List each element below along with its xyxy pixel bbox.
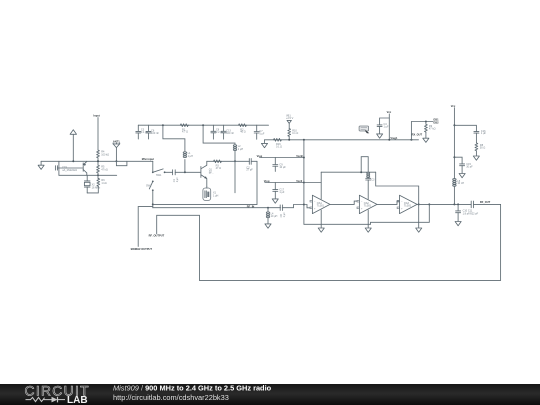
svg-text:SW2: SW2: [146, 184, 152, 187]
wire: [184, 160, 186, 173]
node 900MHZ OUTPUT: [131, 207, 153, 252]
node Vcc flag: [387, 110, 398, 141]
wire: [234, 151, 236, 162]
svg-text:10 µF: 10 µF: [279, 166, 286, 169]
capacitor C17: [272, 183, 285, 204]
svg-text:1 µF: 1 µF: [279, 191, 285, 194]
wire: [41, 160, 87, 162]
antenna ANT1: [113, 139, 120, 162]
resistor R1: [180, 124, 189, 134]
svg-text:900MHZ OUTPUT: 900MHZ OUTPUT: [131, 247, 153, 251]
svg-text:VccB: VccB: [296, 154, 303, 158]
svg-text:uA_2N2222A: uA_2N2222A: [62, 169, 77, 172]
crystal X2: [84, 175, 101, 193]
capacitor C6: [146, 125, 159, 139]
inductor L1: [183, 152, 193, 158]
svg-text:Mist909 / 900 MHz to 2.4 GHz t: Mist909 / 900 MHz to 2.4 GHz to 2.5 GHz …: [113, 384, 272, 393]
wire feedback upper: [304, 172, 376, 182]
wire: [152, 190, 154, 207]
svg-text:Vcc: Vcc: [451, 104, 456, 108]
svg-text:TL081: TL081: [317, 205, 325, 208]
wire: [87, 160, 153, 162]
wire collector: [207, 160, 257, 162]
svg-text:4.7 Ω: 4.7 Ω: [182, 131, 188, 134]
inductor L4: [265, 207, 278, 229]
capacitor C4: [377, 118, 390, 138]
ground: [38, 161, 44, 169]
svg-text:27 pF: 27 pF: [246, 169, 253, 172]
svg-text:1 µH: 1 µH: [188, 155, 194, 158]
wire OA1 out: [330, 201, 357, 204]
wire RF out: [417, 203, 501, 205]
svg-text:http://circuitlab.com/cdshvar2: http://circuitlab.com/cdshvar22bk33: [113, 393, 229, 402]
resistor R16: [274, 138, 283, 148]
svg-text:1 µH: 1 µH: [213, 194, 219, 197]
switch SW2: [146, 181, 154, 192]
logo zigzag diode: [26, 397, 66, 403]
wire: [58, 161, 60, 175]
power V1: [70, 130, 76, 163]
wire: [97, 118, 99, 150]
wire: [152, 161, 154, 171]
svg-text:100 nF: 100 nF: [226, 132, 234, 135]
capacitor C8: [211, 125, 224, 139]
svg-text:47 kΩ: 47 kΩ: [101, 169, 108, 172]
inductor L3 loop: [360, 157, 370, 178]
svg-text:Vreg1: Vreg1: [390, 136, 398, 140]
svg-text:1 µF: 1 µF: [384, 126, 390, 129]
capacitor C14: [280, 205, 286, 217]
crystal X1: [203, 187, 219, 201]
capacitor C3: [366, 177, 375, 199]
capacitor C16: [453, 124, 486, 143]
transistor Q1: [201, 161, 214, 186]
svg-text:10 µH: 10 µH: [271, 215, 278, 218]
node RX_OUT: [410, 117, 439, 140]
wire jog: [116, 161, 127, 165]
svg-text:Input: Input: [93, 114, 99, 118]
resistor R10: [288, 129, 299, 137]
ground: [416, 222, 422, 232]
capacitor C19: [55, 166, 82, 170]
capacitor C7: [254, 125, 265, 139]
op-amp OA3: [397, 195, 417, 213]
resistor R6: [97, 178, 107, 186]
resistor R8: [473, 143, 485, 160]
resistor R2: [239, 124, 247, 134]
resistor R4: [97, 150, 110, 158]
svg-text:RX_OUT: RX_OUT: [412, 132, 423, 136]
node RF_OUTPUT stub: [149, 215, 200, 280]
wire RF_IN upper: [153, 203, 257, 205]
wire: [165, 171, 173, 173]
source VB1: [286, 114, 294, 128]
capacitor C1: [173, 170, 179, 183]
inductor L2: [233, 145, 243, 151]
wire bottom loop: [200, 204, 501, 280]
op-amp OA1: [310, 172, 330, 232]
wire: [175, 171, 200, 173]
resistor R3: [214, 160, 222, 170]
svg-text:50 Ω: 50 Ω: [480, 147, 485, 150]
wire lower: [153, 205, 304, 208]
svg-text:Vcc2: Vcc2: [296, 179, 303, 183]
wire bus: [303, 139, 305, 225]
resistor R5: [97, 165, 108, 173]
svg-text:1 kΩ: 1 kΩ: [101, 182, 106, 185]
capacitor C2: [246, 159, 253, 172]
svg-text:30 pF: 30 pF: [466, 165, 473, 168]
capacitor C12: [471, 200, 490, 208]
transistor Q2: [83, 162, 87, 176]
switch SW1: [152, 169, 166, 177]
wire top rail: [138, 124, 268, 126]
wire: [59, 174, 117, 176]
svg-text:1 µF: 1 µF: [283, 212, 286, 218]
svg-text:16 MHz: 16 MHz: [92, 187, 101, 190]
wire: [97, 158, 99, 165]
wire Vcc2: [264, 179, 304, 183]
svg-text:1.8 pF/822 pF: 1.8 pF/822 pF: [463, 212, 479, 215]
capacitor C15: [453, 156, 473, 178]
svg-text:47 Ω: 47 Ω: [216, 167, 221, 170]
wire to OA1 input: [304, 205, 310, 208]
svg-text:10 nH: 10 nH: [457, 182, 464, 185]
wire: [87, 186, 98, 193]
svg-text:47 kΩ: 47 kΩ: [429, 128, 436, 131]
svg-text:1 µF: 1 µF: [481, 132, 487, 135]
wire: [202, 124, 235, 144]
svg-text:TL081: TL081: [364, 205, 372, 208]
svg-text:0.1 Ω: 0.1 Ω: [276, 145, 282, 148]
svg-text:RF_OUT: RF_OUT: [480, 200, 491, 204]
wire: [288, 136, 290, 139]
svg-text:GB2: GB2: [433, 121, 439, 125]
wire VccB: [257, 154, 304, 158]
wire feedback lower: [376, 172, 419, 222]
label C19: [62, 166, 77, 172]
node Vcc flag right: [451, 104, 456, 205]
inductor L5: [453, 179, 465, 205]
svg-text:100 nF: 100 nF: [151, 132, 159, 135]
svg-text:100 kΩ: 100 kΩ: [101, 154, 109, 157]
resistor R9: [423, 121, 436, 143]
svg-text:1 µF: 1 µF: [176, 177, 179, 183]
wire dangling: [234, 161, 236, 192]
wire mid: [265, 139, 419, 141]
svg-text:SW1: SW1: [156, 174, 162, 177]
svg-text:1 µF: 1 µF: [259, 133, 265, 136]
svg-text:46 Ω: 46 Ω: [240, 131, 245, 134]
svg-text:1 µH: 1 µH: [238, 148, 244, 151]
note icon: [359, 126, 369, 133]
wire OA2 out: [377, 201, 400, 204]
svg-text:RF_OUTPUT: RF_OUTPUT: [149, 234, 165, 238]
svg-text:LAB: LAB: [67, 395, 88, 405]
wire: [162, 124, 185, 151]
svg-text:+2.5 V: +2.5 V: [286, 117, 294, 120]
ground: [261, 140, 267, 148]
capacitor C5: [136, 125, 149, 139]
svg-text:TL081: TL081: [404, 205, 412, 208]
footer: [0, 384, 540, 405]
wire: [97, 173, 100, 178]
svg-text:BF...: BF...: [209, 172, 214, 175]
wire power rail: [304, 204, 429, 224]
svg-text:0.1 Ω: 0.1 Ω: [292, 132, 298, 135]
capacitor C10 C11: [455, 203, 479, 225]
svg-text:Mhz input: Mhz input: [142, 157, 154, 161]
op-amp OA2: [357, 195, 377, 232]
wire: [256, 161, 258, 204]
capacitor C13: [221, 125, 234, 139]
capacitor C9: [273, 158, 287, 172]
